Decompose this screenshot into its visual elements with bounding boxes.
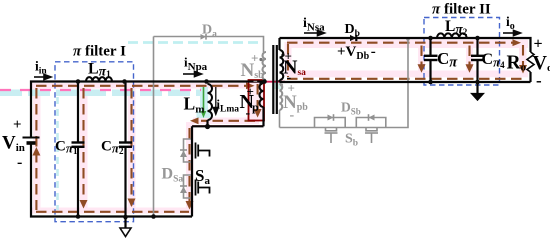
- svg-text:-: -: [17, 154, 22, 171]
- svg-text:+: +: [534, 36, 543, 53]
- svg-text:+: +: [247, 84, 254, 99]
- svg-text:-: -: [246, 106, 251, 121]
- svg-text:+: +: [13, 117, 22, 133]
- svg-text:-: -: [290, 108, 295, 123]
- svg-text:+: +: [288, 81, 295, 96]
- svg-text:+VDb-: +VDb-: [337, 44, 376, 62]
- svg-text:-: -: [536, 71, 542, 90]
- svg-text:π filter I: π filter I: [73, 44, 126, 60]
- svg-text:+: +: [285, 49, 292, 64]
- svg-text:+: +: [251, 51, 258, 66]
- svg-text:π filter II: π filter II: [432, 2, 491, 18]
